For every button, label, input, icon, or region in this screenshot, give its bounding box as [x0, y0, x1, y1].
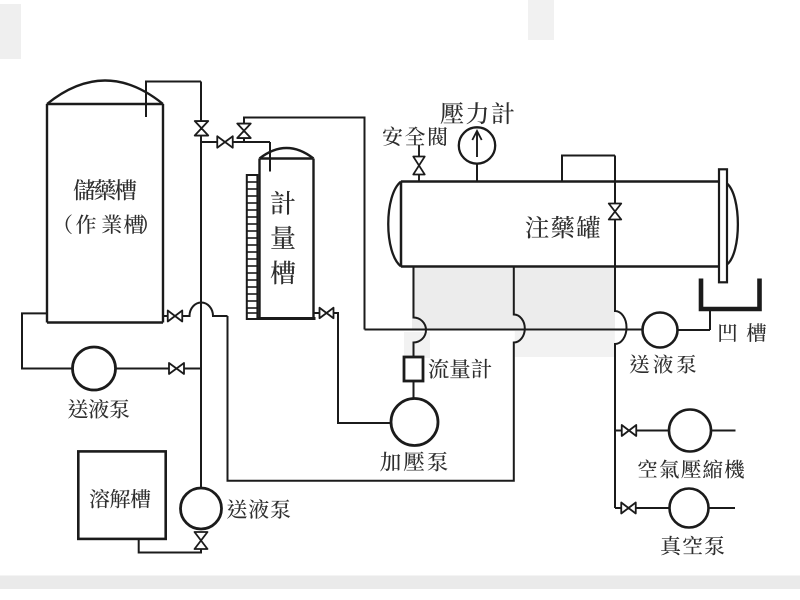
feed pump P5 送液泵 right — [643, 313, 678, 348]
pipe: pressure gauge stem — [476, 164, 478, 182]
trough 凹槽 — [701, 279, 760, 310]
storage tank dome — [47, 81, 163, 105]
label 凹槽 — [719, 324, 736, 342]
air compressor 空氣壓縮機 — [669, 410, 711, 452]
scan smudge top middle — [528, 0, 554, 40]
pressure gauge 壓力計 dial — [459, 127, 495, 163]
injection tank left cap — [388, 182, 401, 267]
valve V10 under pump P2 — [195, 532, 208, 549]
pipe: pump P5 to trough riser — [678, 310, 711, 330]
label 儲藥槽 — [74, 179, 96, 200]
pressurizing pump 加壓泵 — [391, 399, 438, 446]
label （作業槽） — [66, 214, 72, 234]
dissolving tank 溶解槽 — [78, 451, 165, 539]
valve V6 air compressor branch — [622, 425, 637, 436]
injection tank right cap — [727, 184, 738, 265]
pipe: drop C from notch through tank to vacuum branch — [615, 156, 627, 509]
valve V2 horizontal on branch — [217, 136, 233, 148]
label 送液泵 right — [630, 355, 649, 374]
valve V8 tank bottom outlet — [168, 311, 183, 322]
vacuum pump 真空泵 — [670, 489, 709, 528]
injection tank right flange — [719, 169, 727, 282]
injection tank 注藥罐 shell — [401, 182, 719, 267]
label 送液泵 bottom — [227, 499, 247, 518]
pipe: drop A to flow meter with hop over manifold — [414, 267, 426, 357]
pipe: branch to vacuum pump — [615, 507, 669, 509]
pipe: vacuum pump outlet — [709, 507, 736, 509]
pipe: riser from branch to top header — [244, 118, 365, 330]
scan shading below injection tank — [412, 268, 615, 329]
pipe: pump P1 to main pipe — [116, 368, 170, 370]
manifold header below injection tank — [365, 329, 643, 331]
pipe: air compressor outlet — [711, 430, 736, 432]
label 加壓泵 — [380, 452, 400, 472]
valve V4 metering outlet — [320, 308, 334, 319]
valve V1 on vertical pipe — [195, 121, 209, 136]
metering tank 計量槽 shell — [260, 159, 314, 319]
label 計量槽 vertical — [271, 191, 295, 215]
label 流量計 — [429, 359, 449, 379]
feed pump P1 送液泵 — [73, 347, 116, 390]
level gauge ladder — [247, 175, 258, 319]
pipe: metering tank outlet — [314, 312, 321, 314]
pipe: tank bottom outlet with hop over main pipe — [163, 303, 228, 317]
metering tank bottom — [258, 317, 316, 320]
valve V5 inside injection tank — [609, 204, 622, 220]
label 注藥罐 — [526, 216, 549, 239]
scan smudge top left corner — [0, 4, 21, 59]
metering tank dome — [260, 148, 314, 159]
label 真空泵 — [661, 536, 680, 556]
storage tank dip tube — [146, 82, 201, 118]
pipe: outlet down to pressurizing pump — [334, 313, 392, 423]
pipe: valve V9 to main pipe — [184, 368, 201, 370]
feed pump P2 送液泵 bottom — [181, 488, 222, 529]
pipe: pump P2 drain to dissolving tank — [139, 539, 201, 553]
pressure gauge needle — [476, 132, 478, 157]
flow meter 流量計 box — [404, 357, 423, 381]
scan shading left of flow meter column — [404, 332, 430, 358]
valve V3 on riser — [237, 124, 251, 139]
pipe: safety valve stem — [418, 145, 420, 181]
scan shading right of flow meter — [515, 331, 615, 357]
pipe: branch to air compressor — [615, 430, 669, 432]
pipe: tank left stub down to pump P1 — [22, 313, 73, 368]
storage tank 儲藥槽 shell — [47, 104, 163, 323]
valve V9 after pump P1 — [169, 363, 184, 374]
pipe: flow meter to pressurizing pump — [413, 381, 415, 399]
safety valve 安全閥 bowtie — [413, 157, 425, 175]
pipe: tank top line down to bottom pump — [200, 82, 202, 490]
label 溶解槽 — [90, 489, 110, 509]
scan gray band at bottom — [0, 576, 800, 590]
top notch on injection tank — [562, 156, 615, 182]
label 安全閥 — [383, 126, 402, 145]
pipe: branch to metering tank with drop into dome — [201, 142, 270, 172]
label 壓力計 — [441, 102, 464, 124]
valve V7 vacuum branch — [621, 503, 636, 514]
label 空氣壓縮機 — [638, 459, 657, 477]
label 送液泵 left — [68, 399, 88, 418]
pipe: drop B with hop, down and west to riser — [228, 267, 525, 481]
